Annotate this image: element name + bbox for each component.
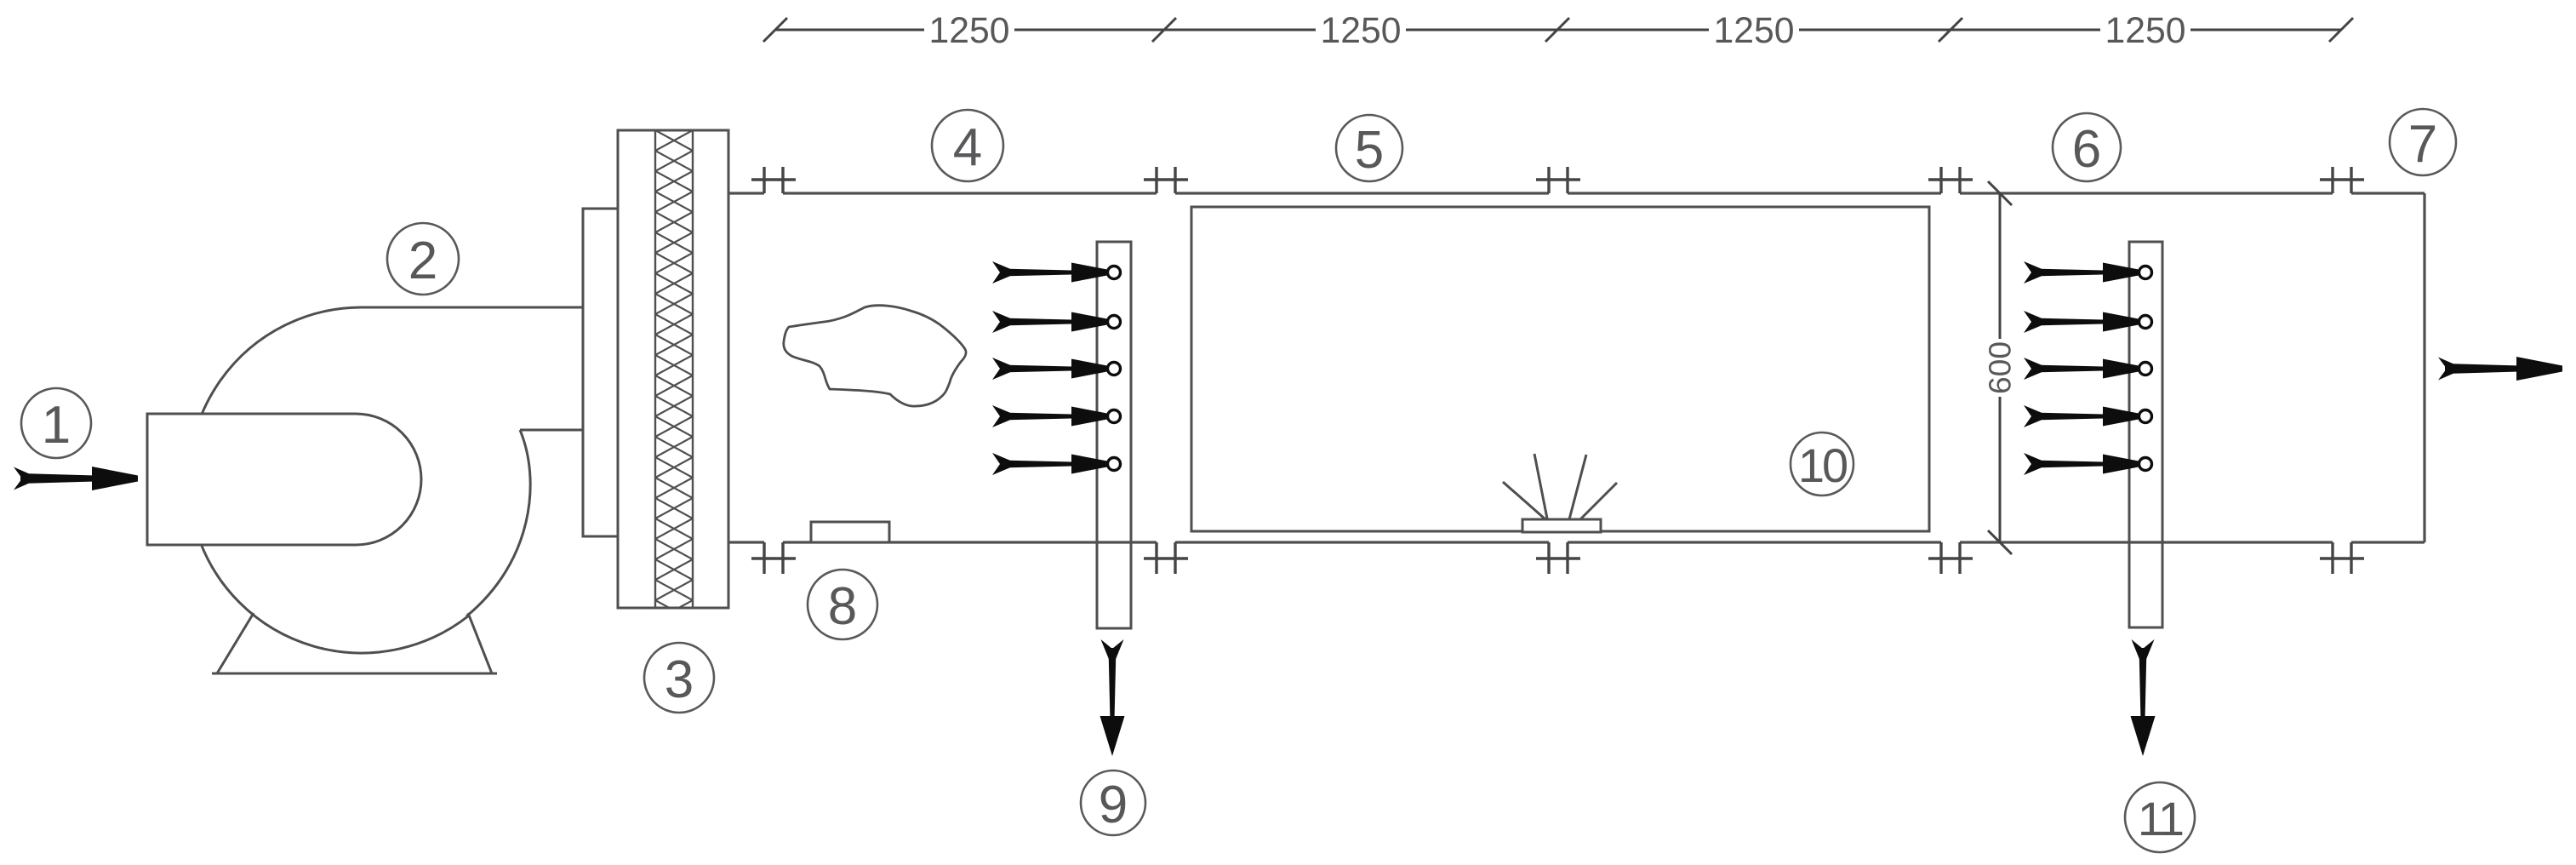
svg-text:6: 6 — [2072, 120, 2101, 179]
svg-text:2: 2 — [408, 232, 437, 290]
svg-text:1250: 1250 — [1714, 10, 1795, 51]
svg-text:11: 11 — [2138, 792, 2183, 845]
svg-text:1250: 1250 — [929, 10, 1010, 51]
svg-text:10: 10 — [1798, 438, 1847, 492]
svg-text:5: 5 — [1355, 121, 1384, 180]
svg-text:4: 4 — [953, 118, 982, 177]
svg-text:600: 600 — [1983, 341, 2018, 394]
svg-text:1250: 1250 — [2105, 10, 2186, 51]
svg-text:8: 8 — [828, 577, 857, 636]
svg-text:3: 3 — [665, 650, 694, 709]
svg-text:1: 1 — [42, 396, 71, 455]
svg-text:7: 7 — [2408, 115, 2437, 174]
svg-text:1250: 1250 — [1321, 10, 1402, 51]
svg-text:9: 9 — [1099, 776, 1128, 834]
